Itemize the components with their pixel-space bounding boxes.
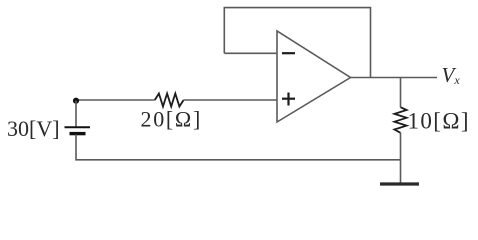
wire noninverting input from node A through R1 xyxy=(76,99,155,101)
resistor R2 10 ohm xyxy=(394,107,406,133)
wire op-amp output to Vx xyxy=(351,77,438,79)
wire node to battery xyxy=(75,101,77,127)
battery V1 negative plate xyxy=(70,132,86,135)
wire inverting input xyxy=(224,52,277,54)
wire output branch down to R2 xyxy=(400,78,402,108)
op-amp U1 xyxy=(277,31,351,122)
wire battery to bottom rail xyxy=(76,135,401,160)
node A junction dot xyxy=(73,98,79,104)
op-amp plus pin label xyxy=(282,93,295,106)
op-amp minus pin label xyxy=(282,52,295,54)
ground xyxy=(380,182,419,185)
battery V1 positive plate xyxy=(65,126,91,128)
wire feedback loop from output to inverting input xyxy=(224,8,370,78)
wire R2 to ground xyxy=(400,133,402,184)
resistor R 20 ohm xyxy=(155,94,184,107)
svg-text:Vx: Vx xyxy=(442,63,461,87)
svg-text:20[Ω]: 20[Ω] xyxy=(141,106,203,131)
svg-text:30[V]: 30[V] xyxy=(7,116,60,141)
svg-text:10[Ω]: 10[Ω] xyxy=(408,109,470,134)
wire resistor to plus input xyxy=(184,99,277,101)
